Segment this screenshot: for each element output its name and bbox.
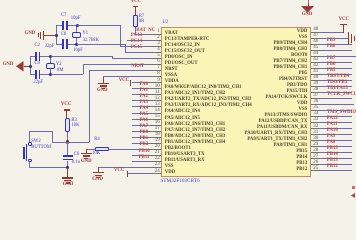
pin 35 number — [313, 105, 318, 110]
pin 25 number — [313, 166, 318, 171]
pin 42 stub — [311, 68, 320, 69]
pin name PA6/ADC12_IN6/TIM3_CH1 (pin 16) — [165, 123, 225, 128]
wire net PA5 (pin 15) — [132, 119, 148, 120]
wire node B down to pin4 row — [125, 44, 126, 53]
wire pin 8 VSSA — [103, 76, 148, 77]
wire node A down to pin3 row — [120, 25, 121, 47]
wire pin 46 net PB9 — [320, 44, 353, 45]
pin 21 number — [155, 150, 160, 155]
net label TMS_SWDIO — [327, 111, 356, 116]
net label PB6 — [327, 63, 336, 68]
pin 15 number — [155, 114, 160, 119]
value STM32F103CBT6 — [161, 179, 200, 184]
label C6 — [74, 153, 79, 158]
pin 12 stub — [148, 100, 161, 101]
wire NRST row (pin 7) — [89, 70, 148, 71]
wire pin 36 VDD rail — [320, 104, 354, 105]
value 10K (R3) — [71, 124, 79, 129]
pin 38 number — [313, 87, 318, 92]
pin 20 number — [155, 144, 160, 149]
net label PB13 — [327, 159, 338, 164]
pin 47 stub — [311, 38, 320, 39]
wire C8 to node B — [68, 44, 77, 45]
pin 31 number — [313, 130, 318, 135]
pin 1 stub — [148, 34, 161, 35]
wire pin 45 net PB8 — [320, 50, 353, 51]
pin 44 number — [313, 51, 318, 56]
pin 14 number — [155, 108, 160, 113]
ground GND arrow (Y2 group) — [3, 63, 14, 68]
wire R7 bottom to pin 1 — [135, 27, 136, 35]
value 10K (R4) — [92, 152, 100, 157]
pin 33 stub — [311, 122, 320, 123]
pin name PA1/ADC12_IN1/TIM2_CH2 (pin 11) — [165, 92, 225, 97]
pin 26 number — [313, 160, 318, 165]
pin 37 number — [313, 93, 318, 98]
gnd bar1 (Y1) — [38, 33, 39, 37]
pin 1 number — [157, 29, 160, 34]
wire SW2 branch to junction — [52, 142, 68, 143]
net label PB10 — [139, 150, 150, 155]
pin name PD1/OSC_OUT (pin 6) — [165, 62, 198, 67]
pin 46 number — [313, 39, 318, 44]
VCC bar (pin 24) — [127, 171, 128, 177]
wire pin 28 net PB15 — [320, 152, 353, 153]
pin name VSS (pin 35) — [299, 108, 308, 113]
pin 4 stub — [148, 52, 161, 53]
wire SW2 bottom across — [29, 167, 68, 168]
resistor R3 — [65, 118, 70, 132]
junction node D (Y2 bottom) — [49, 73, 52, 76]
pin 7 stub — [148, 70, 161, 71]
pin 5 stub — [148, 58, 161, 59]
value BUTTOM — [31, 146, 51, 151]
wire net PA7 (pin 17) — [132, 131, 148, 132]
power VCC above R7 — [131, 0, 141, 5]
capacitor C2 — [35, 52, 37, 61]
pin 21 stub — [148, 155, 161, 156]
wire C7 to node A — [68, 25, 77, 26]
VCC bar (pin48) — [340, 24, 346, 25]
pin 39 stub — [311, 86, 320, 87]
pin 15 stub — [148, 119, 161, 120]
pin 28 stub — [311, 152, 320, 153]
wire pin 41 net PB5 — [320, 74, 353, 75]
wire pin 43 net PB7 — [320, 62, 353, 63]
wire SW2 top across — [29, 131, 51, 132]
net label PB7 — [327, 57, 336, 62]
pin name PB13 (pin 26) — [296, 162, 307, 167]
pin 13 number — [155, 102, 160, 107]
wire rail vertical (Y1) — [56, 25, 57, 45]
junction C6 bottom node — [66, 166, 69, 169]
wire pin 26 net PB13 — [320, 164, 353, 165]
pin 11 number — [155, 90, 160, 95]
net label PA7 — [140, 125, 148, 130]
pin name PA10/UART1_RX/TIM1_CH3 (pin 31) — [245, 132, 308, 137]
power VCC above R3 — [61, 103, 71, 108]
pin 14 stub — [148, 113, 161, 114]
pin 19 number — [155, 138, 160, 143]
pin name PB3/TDO (pin 39) — [287, 84, 307, 89]
net label PB5 — [327, 69, 336, 74]
VCC stem (R7) — [135, 6, 136, 15]
pin 27 number — [313, 154, 318, 159]
wire pin 33 net PA12 — [320, 122, 353, 123]
ground GND below C6 — [62, 177, 73, 178]
pin 6 number — [157, 59, 160, 64]
net label PB11 — [139, 156, 150, 161]
designator U2 — [163, 21, 169, 26]
pin name VSS (pin 47) — [299, 36, 308, 41]
pin 48 number — [313, 27, 318, 32]
wire pin 39 net TDO/PB3 — [320, 86, 353, 87]
net label PA11 — [327, 123, 338, 128]
net label PA10 — [327, 129, 338, 134]
gnd bar1 r — [348, 32, 349, 44]
wire NRST vertical — [89, 70, 90, 142]
wire pin 47 to GND — [320, 38, 348, 39]
wire rail vertical (Y2) — [30, 56, 31, 75]
pin 40 stub — [311, 80, 320, 81]
net label PB8 — [327, 45, 336, 50]
pin name PB7/TIM4_CH2 (pin 43) — [273, 60, 307, 65]
net label BAT NC — [136, 29, 155, 34]
pin name PB11/USART3_RX (pin 22) — [165, 159, 205, 164]
pin 47 number — [313, 33, 318, 38]
label C7 — [61, 14, 66, 19]
pin name PB5 (pin 41) — [299, 72, 308, 77]
wire to pin 4 PC15 — [125, 52, 148, 53]
net label PB0 — [140, 131, 149, 136]
ground GND top right — [308, 0, 309, 4]
wire Y2 top stem — [50, 56, 51, 63]
pin name VDDA (pin 9) — [165, 80, 179, 85]
pin 4 number — [157, 47, 160, 52]
wire pin 25 net PB12 — [320, 170, 353, 171]
pin name PA2/UART2_TX/ADC12_IN2/TIM2_CH3 (pin 12) — [165, 98, 252, 103]
pin name PB6/TIM4_CH1 (pin 42) — [273, 66, 307, 71]
pin 19 stub — [148, 143, 161, 144]
wire pin 37 net TCLK_SWCLK — [320, 98, 353, 99]
pin 28 number — [313, 148, 318, 153]
pin 17 number — [155, 126, 160, 131]
gnd bar2 r — [351, 34, 352, 42]
sheet mark bottom right 1 — [352, 186, 354, 188]
pin name PC14/OSC32_IN (pin 3) — [165, 44, 200, 49]
wire pin 20 PB2 row — [109, 149, 148, 150]
net label PC15 — [131, 46, 142, 51]
VCC stem (pin48) — [343, 25, 344, 33]
value 10pF (C8) — [73, 49, 83, 54]
pin 10 stub — [148, 88, 161, 89]
wire net PB1 (pin 19) — [132, 143, 148, 144]
wire pin 44 BOOT0 to edge — [320, 56, 356, 57]
pin 41 number — [313, 69, 318, 74]
pin 32 stub — [311, 128, 320, 129]
wire reset junction to NRST vert — [68, 142, 89, 143]
wire net PA6 (pin 16) — [132, 125, 148, 126]
pin 16 number — [155, 120, 160, 125]
net label PA3 — [140, 101, 148, 106]
crystal Y1 — [72, 32, 82, 38]
gnd bar2 (Y1) — [40, 32, 41, 39]
junction rail-GND (Y1) — [55, 34, 58, 37]
pin 45 stub — [311, 50, 320, 51]
pin name PA3/UART2_RX/ADC12_IN3/TIM2_CH4 (pin 13) — [165, 104, 252, 109]
pin 46 stub — [311, 44, 320, 45]
label Y2 — [56, 63, 62, 68]
wire Y2 bottom stem — [50, 69, 51, 74]
net label PA0 — [140, 83, 148, 88]
pin 43 stub — [311, 62, 320, 63]
resistor R7 — [133, 15, 138, 26]
pin name PA13/JTMS/SWDIO (pin 34) — [264, 114, 307, 119]
wire R3 bottom — [67, 132, 68, 142]
VCC bar (R3) — [64, 109, 70, 110]
net label TCLK_SWCLK — [327, 93, 356, 98]
junction node B (Y1 bottom) — [75, 43, 78, 46]
pin 30 stub — [311, 140, 320, 141]
pin 39 number — [313, 81, 318, 86]
pin 29 number — [313, 142, 318, 147]
pin name PB2/BOOT1 (pin 20) — [165, 147, 191, 152]
net label PA12 — [327, 117, 338, 122]
pin name VDD (pin 48) — [297, 30, 307, 35]
label R3 — [71, 119, 76, 124]
pin name VDD (pin 36) — [297, 102, 307, 107]
wire GND to rail (Y2) — [24, 66, 31, 67]
pin name PB4/NJTRST (pin 40) — [279, 78, 307, 83]
wire pin 29 net PA8 — [320, 146, 353, 147]
pin name PA7/ADC12_IN7/TIM3_CH2 (pin 17) — [165, 129, 225, 134]
label Y1 — [82, 32, 88, 37]
wire node B right — [77, 44, 125, 45]
pin 7 number — [157, 65, 160, 70]
gnd stem (C6) — [67, 168, 68, 178]
net label TRST/PB4 — [327, 75, 349, 80]
pin 20 stub — [148, 149, 161, 150]
pin 24 number — [155, 169, 160, 174]
pin name PA14/TCK/SWCLK (pin 37) — [266, 96, 308, 101]
wire C9 to node D — [40, 74, 51, 75]
pin 2 stub — [148, 40, 161, 41]
pin 18 stub — [148, 137, 161, 138]
wire rail to C9 — [30, 74, 35, 75]
pin name PD0/OSC_IN (pin 5) — [165, 56, 193, 61]
capacitor C7 — [62, 21, 64, 30]
net label PC14 — [131, 40, 142, 45]
net label PC13 — [131, 34, 142, 39]
pin 34 stub — [311, 116, 320, 117]
wire net PB10 (pin 21) — [132, 155, 148, 156]
wire rail to C2 — [30, 56, 35, 57]
wire node D up to pin6 row — [83, 64, 84, 75]
pin 36 number — [313, 99, 318, 104]
ground GND below VSSA — [98, 83, 109, 84]
wire Y1 bottom stem — [76, 38, 77, 45]
pin 45 number — [313, 45, 318, 50]
pin name PA8/TIM1_CH1 (pin 29) — [274, 144, 308, 149]
value 0R — [139, 20, 144, 25]
wire pin 40 net TRST/PB4 — [320, 80, 353, 81]
wire pin 24 VDD — [128, 173, 148, 174]
pin name PA0/WKUP/ADC12_IN0/TIM2_CH1 (pin 10) — [165, 86, 242, 91]
pin 22 number — [155, 156, 160, 161]
pin name PB0/ADC12_IN8/TIM3_CH3 (pin 18) — [165, 135, 226, 140]
net label PB1 — [140, 137, 149, 142]
label C2 — [35, 44, 40, 49]
VCC stem (R3) — [66, 110, 67, 118]
wire net PA1 (pin 11) — [132, 94, 148, 95]
wire net PA4 (pin 14) — [132, 113, 148, 114]
wire to pin 5 OSC_IN — [112, 58, 147, 59]
pin 25 stub — [311, 170, 320, 171]
net label PB15 — [327, 147, 338, 152]
pin 42 number — [313, 63, 318, 68]
power VCC at VDDA — [119, 79, 129, 84]
pin name PA15/TDI (pin 38) — [287, 90, 308, 95]
wire SW2 down to reset row — [52, 131, 53, 142]
ground GND below VSS pin 23 — [93, 172, 104, 173]
resistor R4 — [95, 147, 109, 152]
pin name PB15 (pin 28) — [296, 150, 307, 155]
pin 35 stub — [311, 110, 320, 111]
pin name PB8/TIM4_CH3 (pin 45) — [273, 48, 307, 53]
net label PA6 — [140, 119, 148, 124]
pin name NRST (pin 7) — [165, 68, 178, 73]
sheet mark bottom right 2 — [351, 193, 355, 198]
pin 6 stub — [148, 64, 161, 65]
net label PA9 — [327, 135, 335, 140]
value 0.1uF (C6) — [72, 161, 80, 166]
wire pin 27 net PB14 — [320, 158, 353, 159]
pin name PB9/TIM4_CH4 (pin 46) — [273, 42, 307, 47]
wire rail to C7 — [56, 25, 62, 26]
pin 37 stub — [311, 98, 320, 99]
pin name VSS (pin 23) — [165, 165, 174, 170]
value 32.768K (Y1) — [83, 39, 99, 44]
pin 8 number — [157, 71, 160, 76]
power VCC top right — [339, 18, 349, 23]
wire pin 32 net PA11 — [320, 128, 353, 129]
net label PA1 — [140, 89, 148, 94]
pin 43 number — [313, 57, 318, 62]
pin 22 stub — [148, 161, 161, 162]
gnd bar3 r — [354, 36, 355, 41]
wire C2 to node C — [40, 56, 51, 57]
pin 24 stub — [148, 173, 161, 174]
pin name BOOT0 (pin 44) — [291, 54, 307, 59]
pin name PA12/USBDP/CAN_TX (pin 33) — [259, 120, 308, 125]
wire C6 bottom — [67, 161, 68, 168]
wire VBAT row (pin 1) — [135, 34, 148, 35]
wire node D right — [51, 74, 84, 75]
wire to pin 3 PC14 — [120, 46, 148, 47]
net label PB14 — [327, 153, 338, 158]
net label PA5 — [140, 113, 148, 118]
pin 23 number — [155, 162, 160, 167]
pin 3 number — [157, 41, 160, 46]
wire pin 48 to VCC — [320, 32, 344, 33]
VCC bar (VDDA) — [130, 80, 131, 86]
pin name PA9/UART1_TX/TIM1_CH2 (pin 30) — [247, 138, 307, 143]
junction reset node — [66, 140, 69, 143]
label R7 — [139, 15, 144, 20]
capacitor C6 — [63, 155, 72, 157]
wire net PB11 (pin 22) — [132, 161, 148, 162]
pin name PA11/USBDM/CAN_RX (pin 32) — [257, 126, 307, 131]
wire net PC13 (pin 2) — [127, 40, 148, 41]
net label NRST — [131, 65, 144, 70]
pin 17 stub — [148, 131, 161, 132]
wire net PA3 (pin 13) — [132, 106, 148, 107]
pin 2 number — [157, 35, 160, 40]
wire pin 38 net TDI/PA15 — [320, 92, 353, 93]
pin name PB1/ADC12_IN9/TIM3_CH4 (pin 19) — [165, 141, 226, 146]
pin 8 stub — [148, 76, 161, 77]
wire node C down to pin5 row — [112, 56, 113, 59]
net label PA2 — [140, 95, 148, 100]
wire pin 35 VSS rail — [320, 110, 353, 111]
gnd stem (pin 23) — [98, 168, 99, 173]
net label PB2 — [140, 143, 149, 148]
pin name PB12 (pin 25) — [296, 168, 307, 173]
net label PA4 — [140, 107, 148, 112]
wire net PA0 (pin 10) — [132, 88, 148, 89]
pin 26 stub — [311, 164, 320, 165]
wire node C right — [51, 56, 113, 57]
pin 44 stub — [311, 56, 320, 57]
pin 10 number — [155, 84, 160, 89]
wire Y1 top stem — [76, 25, 77, 31]
net label PB9 — [327, 39, 336, 44]
value 8M (Y2) — [57, 69, 64, 74]
wire pin 30 net PA9 — [320, 140, 353, 141]
pin name PC15/OSC32_OUT (pin 4) — [165, 50, 205, 55]
pin 36 stub — [311, 104, 320, 105]
wire pin 34 net TMS_SWDIO — [320, 116, 353, 117]
wire GND to rail (Y1) — [44, 35, 56, 36]
capacitor C8 — [62, 39, 64, 48]
wire R4 left — [86, 149, 96, 150]
pin 34 number — [313, 111, 318, 116]
net label TDI/PA15 — [327, 87, 348, 92]
pin name VBAT (pin 1) — [165, 32, 178, 37]
pin 18 number — [155, 132, 160, 137]
wire pin 9 VDDA — [132, 82, 148, 83]
capacitor C9 — [35, 70, 37, 79]
pin 38 stub — [311, 92, 320, 93]
pin name VDD (pin 24) — [165, 171, 175, 176]
pin 16 stub — [148, 125, 161, 126]
pin 48 stub — [311, 32, 320, 33]
pin 30 number — [313, 136, 318, 141]
value 10pF (C7) — [71, 17, 81, 22]
pin 11 stub — [148, 94, 161, 95]
junction node C (Y2 top) — [49, 55, 52, 58]
crystal Y2 — [46, 63, 55, 69]
pin name PC13/TAMPER-RTC (pin 2) — [165, 38, 210, 43]
pin 40 number — [313, 75, 318, 80]
pin 31 stub — [311, 134, 320, 135]
junction node A (Y1 top) — [76, 24, 79, 27]
junction rail-GND (Y2) — [29, 65, 32, 68]
pin 9 number — [157, 78, 160, 83]
ground GND below R4 — [81, 153, 92, 154]
pin 13 stub — [148, 106, 161, 107]
label C8 — [61, 33, 66, 38]
